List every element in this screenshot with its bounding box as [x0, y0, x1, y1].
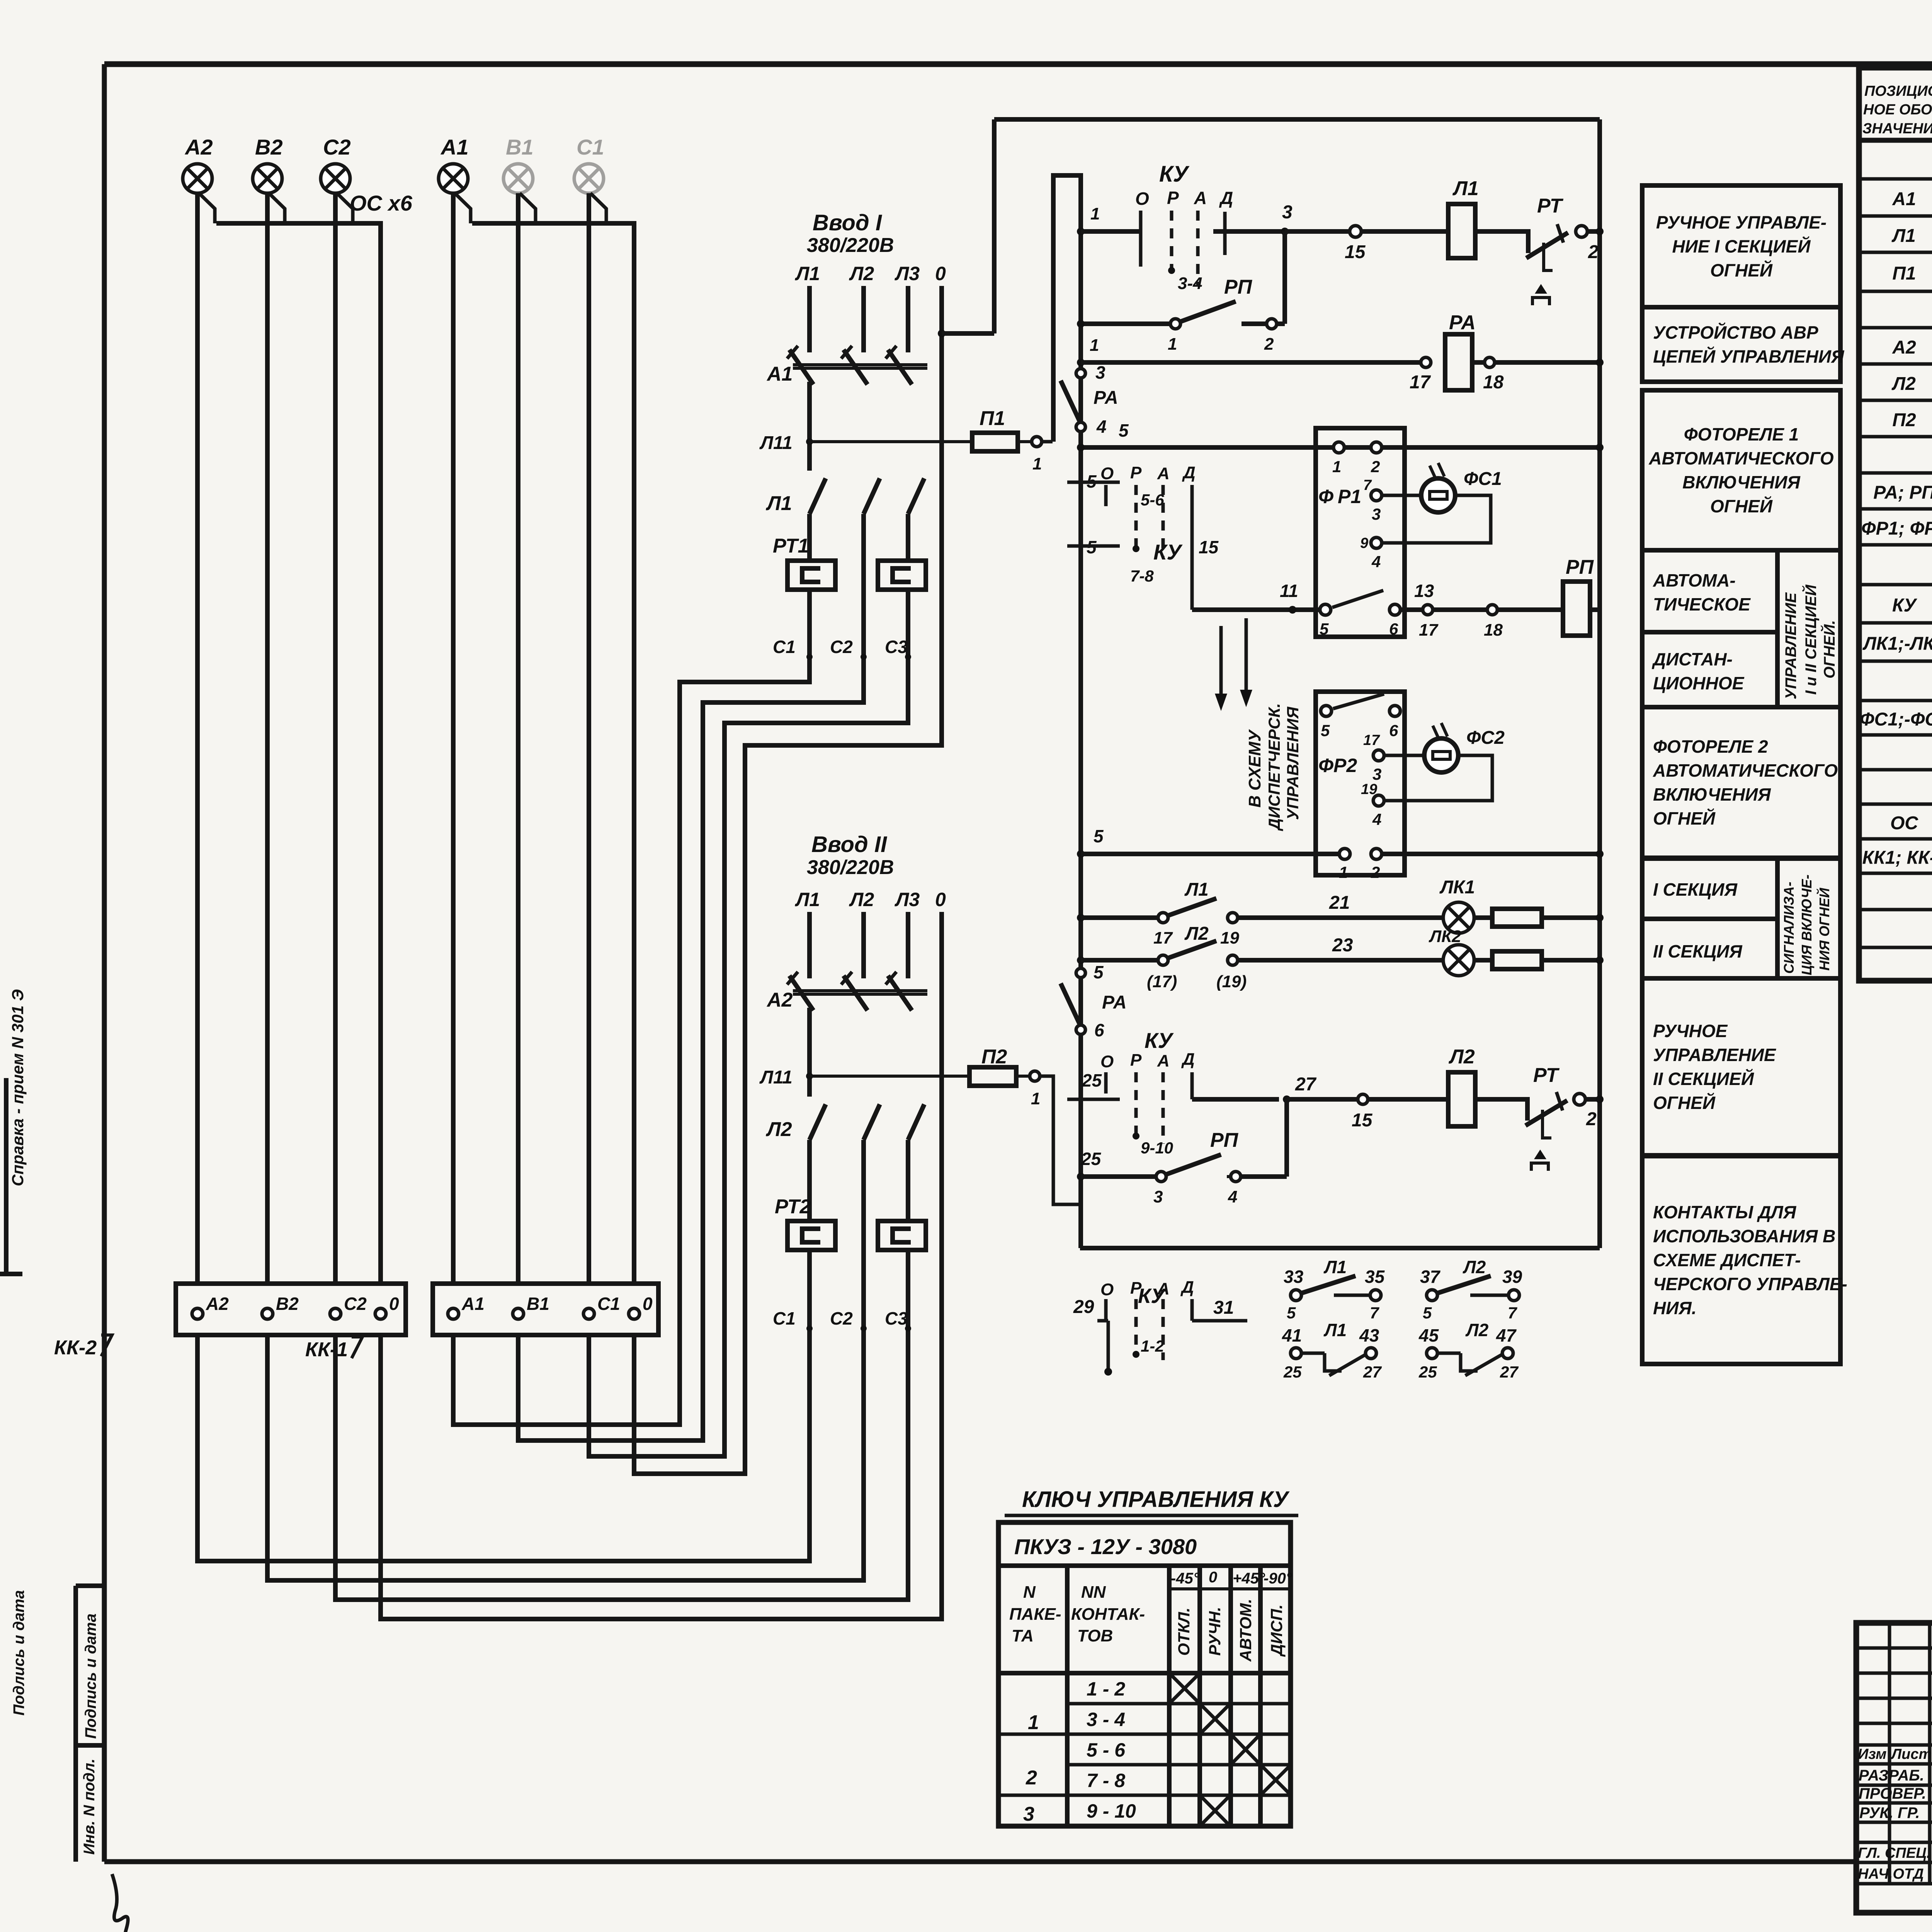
- svg-text:5: 5: [1119, 420, 1129, 440]
- svg-text:С3: С3: [885, 1308, 908, 1328]
- row РП coil (11-13-18): [1192, 556, 1600, 639]
- svg-text:ЦИЯ ВКЛЮЧЕ-: ЦИЯ ВКЛЮЧЕ-: [1799, 874, 1815, 975]
- svg-text:5: 5: [1423, 1304, 1432, 1322]
- function box РУЧНОЕ: [1642, 978, 1840, 1155]
- svg-text:1: 1: [1028, 1711, 1039, 1734]
- wire lamp С2 down to КК-2: [333, 193, 338, 1284]
- function box I секция / II секция: [1642, 859, 1840, 978]
- svg-text:ЦИОННОЕ: ЦИОННОЕ: [1653, 673, 1745, 693]
- svg-text:Л2: Л2: [1463, 1257, 1486, 1277]
- svg-text:1 - 2: 1 - 2: [1087, 1678, 1125, 1700]
- svg-text:Справка - прием N 301 Э: Справка - прием N 301 Э: [9, 989, 27, 1186]
- wire bundle КК-2 to Ввод II: [197, 1327, 942, 1619]
- wire lamp А1 down to КК-1: [451, 193, 456, 1284]
- svg-text:21: 21: [1329, 893, 1350, 913]
- svg-text:А2: А2: [766, 989, 793, 1011]
- table row РА; РП: [1873, 480, 1932, 503]
- svg-text:РП: РП: [1566, 556, 1594, 578]
- svg-text:27: 27: [1295, 1074, 1317, 1095]
- svg-text:4: 4: [1372, 810, 1381, 828]
- bottom-left corner scribble: [112, 1874, 132, 1932]
- svg-text:СХЕМЕ ДИСПЕТ-: СХЕМЕ ДИСПЕТ-: [1653, 1250, 1801, 1270]
- svg-text:Р: Р: [1130, 463, 1142, 482]
- svg-text:19: 19: [1220, 929, 1239, 947]
- table row КУ: [1892, 590, 1932, 619]
- svg-text:АВТОМАТИЧЕСКОГО: АВТОМАТИЧЕСКОГО: [1653, 760, 1838, 781]
- svg-text:НОЕ ОБО-: НОЕ ОБО-: [1863, 102, 1932, 118]
- svg-text:НАЧ.ОТД: НАЧ.ОТД: [1858, 1866, 1924, 1882]
- table row ФР1; ФР2: [1861, 516, 1932, 539]
- svg-text:ДИСП.: ДИСП.: [1267, 1604, 1286, 1657]
- svg-text:380/220В: 380/220В: [807, 856, 894, 879]
- svg-text:ФОТОРЕЛЕ 2: ФОТОРЕЛЕ 2: [1653, 736, 1768, 757]
- svg-text:5: 5: [1287, 1304, 1296, 1322]
- signal row Л2 23 ЛК2: [1077, 923, 1604, 991]
- svg-text:37: 37: [1420, 1267, 1441, 1287]
- svg-text:С2: С2: [344, 1294, 367, 1314]
- svg-text:В СХЕМУ: В СХЕМУ: [1245, 729, 1264, 808]
- control key КУ (middle 5-6 7-8): [1067, 463, 1219, 610]
- table row ОС: [1890, 808, 1932, 837]
- svg-text:5 - 6: 5 - 6: [1087, 1739, 1126, 1761]
- wire lamp group 1 neutral bus: [455, 193, 634, 1284]
- wire lamp В2 down to КК-2: [265, 193, 270, 1284]
- svg-text:1: 1: [1339, 863, 1348, 881]
- svg-text:Д: Д: [1180, 1278, 1194, 1297]
- svg-text:17: 17: [1419, 621, 1439, 639]
- lamp ОС С2: [321, 135, 351, 193]
- svg-text:ИСПОЛЬЗОВАНИЯ В: ИСПОЛЬЗОВАНИЯ В: [1653, 1226, 1835, 1246]
- svg-text:5: 5: [1321, 721, 1330, 740]
- svg-text:РА: РА: [1449, 311, 1476, 334]
- control key КУ (bottom 1-2, 29/31): [1073, 1278, 1247, 1376]
- function box ФОТОРЕЛЕ 2: [1642, 707, 1840, 858]
- svg-text:Л1: Л1: [1323, 1320, 1347, 1340]
- svg-text:Л11: Л11: [759, 433, 793, 453]
- svg-text:ТА: ТА: [1012, 1626, 1034, 1645]
- node 3: [1281, 202, 1350, 235]
- svg-text:7 - 8: 7 - 8: [1087, 1770, 1125, 1791]
- svg-text:N: N: [1023, 1583, 1036, 1602]
- svg-text:25: 25: [1081, 1149, 1102, 1169]
- svg-text:3: 3: [1153, 1187, 1163, 1206]
- svg-text:С2: С2: [830, 1308, 853, 1328]
- svg-text:Л1: Л1: [1184, 879, 1209, 900]
- interlock contact РП (section I): [1077, 231, 1285, 354]
- svg-text:ОГНЕЙ: ОГНЕЙ: [1710, 260, 1773, 281]
- svg-text:0: 0: [935, 889, 946, 910]
- net labels Л1 Л2 Л3 0 ввод I: [795, 263, 946, 284]
- table row П2: [1892, 408, 1932, 431]
- svg-text:Р: Р: [1130, 1051, 1142, 1070]
- svg-text:(19): (19): [1216, 972, 1247, 991]
- svg-text:ОС: ОС: [1890, 813, 1918, 833]
- svg-text:17: 17: [1363, 732, 1380, 748]
- svg-text:В2: В2: [276, 1294, 299, 1314]
- svg-text:15: 15: [1345, 242, 1366, 262]
- svg-text:Л2: Л2: [1465, 1320, 1489, 1340]
- control key КУ (upper): [1135, 162, 1285, 293]
- svg-text:Л1: Л1: [795, 889, 820, 910]
- svg-text:ПОЗИЦИОН: ПОЗИЦИОН: [1864, 83, 1932, 99]
- control circuit box outline: [994, 119, 1600, 1248]
- table row ЛК1;-ЛК2: [1862, 631, 1932, 655]
- svg-text:А: А: [1157, 1279, 1170, 1298]
- svg-text:ЛК1: ЛК1: [1439, 877, 1475, 898]
- svg-text:Р1: Р1: [1338, 486, 1361, 507]
- svg-text:-90°: -90°: [1264, 1570, 1293, 1587]
- svg-text:13: 13: [1414, 581, 1434, 601]
- arrows to dispatcher circuit: [1215, 618, 1302, 831]
- svg-text:4: 4: [1228, 1187, 1237, 1206]
- svg-text:УПРАВЛЕНИЕ: УПРАВЛЕНИЕ: [1653, 1045, 1776, 1065]
- svg-text:23: 23: [1332, 935, 1353, 956]
- svg-text:3: 3: [1095, 362, 1105, 383]
- photorelay ФР2 box: [1316, 692, 1405, 881]
- breaker А1: [766, 286, 927, 385]
- contact point 15 (row 1): [1345, 226, 1448, 262]
- svg-text:25: 25: [1418, 1363, 1437, 1381]
- svg-text:РАЗРАБ.: РАЗРАБ.: [1859, 1767, 1924, 1784]
- svg-text:Инв. N подл.: Инв. N подл.: [81, 1759, 98, 1855]
- svg-text:1: 1: [1032, 454, 1042, 473]
- svg-text:АВТОМ.: АВТОМ.: [1236, 1599, 1255, 1662]
- thermal contact РТ (row 1): [1526, 195, 1604, 305]
- svg-text:ОГНЕЙ: ОГНЕЙ: [1653, 1093, 1716, 1113]
- lamp ОС С1: [574, 135, 604, 193]
- svg-text:КУ: КУ: [1145, 1028, 1174, 1053]
- lamp ОС А2: [183, 135, 213, 193]
- svg-text:18: 18: [1483, 372, 1504, 393]
- svg-text:В1: В1: [506, 135, 534, 159]
- svg-text:РУК. ГР.: РУК. ГР.: [1859, 1804, 1920, 1821]
- svg-text:УПРАВЛЕНИЕ: УПРАВЛЕНИЕ: [1782, 592, 1799, 699]
- svg-text:5: 5: [1094, 962, 1104, 982]
- svg-text:РТ: РТ: [1533, 1064, 1560, 1087]
- svg-text:2: 2: [1588, 242, 1599, 262]
- parts list table: [1859, 68, 1932, 981]
- svg-text:ПАКЕ-: ПАКЕ-: [1009, 1605, 1061, 1624]
- svg-text:4: 4: [1096, 417, 1107, 437]
- svg-text:КОНТАК-: КОНТАК-: [1071, 1605, 1145, 1624]
- svg-text:3: 3: [1372, 765, 1381, 783]
- supply bus with bridge: [1053, 175, 1081, 1248]
- svg-text:ОГНЕЙ.: ОГНЕЙ.: [1820, 620, 1838, 679]
- svg-text:Л2: Л2: [1891, 374, 1916, 394]
- row 5 to box edge through ФР2 pins: [1077, 826, 1604, 858]
- lamp ОС В2: [253, 135, 283, 193]
- svg-text:17: 17: [1153, 929, 1173, 947]
- svg-text:ФР1; ФР2: ФР1; ФР2: [1861, 519, 1932, 539]
- svg-text:31: 31: [1213, 1298, 1234, 1318]
- svg-text:Л1: Л1: [795, 263, 820, 284]
- changeover РА on bus (3/4): [1061, 362, 1118, 437]
- svg-text:Л3: Л3: [895, 263, 920, 284]
- svg-text:С1: С1: [773, 1308, 796, 1328]
- svg-text:АВТОМАТИЧЕСКОГО: АВТОМАТИЧЕСКОГО: [1648, 448, 1833, 468]
- wire lamp В1 down to КК-1: [516, 193, 520, 1284]
- interlock contact РП (section II, 3-4): [1077, 1099, 1287, 1206]
- svg-text:КК-2: КК-2: [54, 1337, 97, 1359]
- svg-text:ФС2: ФС2: [1466, 728, 1505, 748]
- thermal element РТ1: [773, 514, 926, 723]
- svg-text:ОС х6: ОС х6: [350, 191, 413, 215]
- svg-text:ФС1;-ФС2: ФС1;-ФС2: [1860, 709, 1932, 730]
- left margin stamp: подпись и дата / инв: [0, 989, 104, 1862]
- svg-text:7: 7: [1370, 1304, 1379, 1322]
- title block outline: [1856, 1623, 1932, 1913]
- svg-text:Д: Д: [1219, 188, 1233, 208]
- svg-text:П1: П1: [980, 407, 1005, 430]
- svg-text:6: 6: [1389, 620, 1398, 638]
- svg-text:ГЛ. СПЕЦ.: ГЛ. СПЕЦ.: [1858, 1845, 1930, 1861]
- label Ввод I 380/220В: [807, 210, 894, 257]
- svg-text:1: 1: [1090, 204, 1100, 223]
- function box ФОТОРЕЛЕ 1: [1642, 390, 1840, 550]
- svg-text:О: О: [1100, 464, 1114, 483]
- svg-text:СИГНАЛИЗА-: СИГНАЛИЗА-: [1781, 882, 1797, 974]
- svg-text:43: 43: [1359, 1325, 1379, 1345]
- svg-text:А1: А1: [440, 135, 469, 159]
- breaker А2: [766, 912, 927, 1011]
- svg-text:47: 47: [1496, 1325, 1517, 1345]
- svg-text:С1: С1: [577, 135, 604, 159]
- svg-text:С2: С2: [323, 135, 351, 159]
- photorelay ФР1 box: [1316, 428, 1405, 638]
- svg-text:3: 3: [1282, 202, 1293, 223]
- svg-text:1: 1: [1332, 457, 1341, 476]
- svg-text:ДИСТАН-: ДИСТАН-: [1651, 649, 1733, 669]
- wire lamp group 2 neutral bus: [199, 193, 381, 1284]
- svg-text:КУ: КУ: [1892, 595, 1918, 616]
- svg-text:КОНТАКТЫ ДЛЯ: КОНТАКТЫ ДЛЯ: [1653, 1202, 1797, 1222]
- svg-text:29: 29: [1073, 1297, 1094, 1317]
- label Ввод II 380/220В: [807, 832, 894, 879]
- svg-text:РУЧНОЕ: РУЧНОЕ: [1653, 1021, 1728, 1041]
- svg-text:7-8: 7-8: [1130, 567, 1154, 585]
- svg-text:6: 6: [1094, 1020, 1104, 1040]
- svg-text:5: 5: [1320, 620, 1329, 638]
- svg-text:Л2: Л2: [849, 263, 874, 284]
- svg-text:35: 35: [1365, 1267, 1385, 1287]
- svg-text:Л1: Л1: [1323, 1257, 1347, 1277]
- lamp ОС А1: [439, 135, 469, 193]
- svg-text:С3: С3: [885, 637, 908, 657]
- svg-text:ОТКЛ.: ОТКЛ.: [1175, 1607, 1193, 1656]
- svg-text:РУЧНОЕ УПРАВЛЕ-: РУЧНОЕ УПРАВЛЕ-: [1656, 213, 1827, 233]
- svg-text:РТ2: РТ2: [775, 1196, 811, 1218]
- svg-text:ПРОВЕР.: ПРОВЕР.: [1859, 1785, 1926, 1802]
- svg-text:Подпись и дата: Подпись и дата: [82, 1614, 99, 1739]
- svg-text:15: 15: [1352, 1110, 1373, 1131]
- changeover РА on bus (5/6): [1061, 962, 1127, 1040]
- svg-text:А1: А1: [461, 1294, 485, 1314]
- svg-text:3 - 4: 3 - 4: [1087, 1709, 1125, 1730]
- table row КК1; КК-2: [1862, 845, 1932, 869]
- svg-text:С1: С1: [773, 637, 796, 657]
- svg-text:Л1: Л1: [1452, 177, 1479, 200]
- svg-text:Р: Р: [1167, 188, 1179, 208]
- svg-text:2: 2: [1586, 1109, 1597, 1129]
- function box РУЧНОЕ УПРАВЛЕ-: [1642, 185, 1840, 307]
- svg-text:ЗНАЧЕНИЕ: ЗНАЧЕНИЕ: [1862, 121, 1932, 137]
- svg-text:2: 2: [1371, 863, 1380, 881]
- table row Л2: [1891, 368, 1932, 397]
- table row П1: [1892, 261, 1932, 284]
- svg-text:А: А: [1157, 464, 1170, 483]
- contactor contacts Л2 (ввод II): [765, 1104, 924, 1221]
- svg-text:I и II СЕКЦИЕЙ: I и II СЕКЦИЕЙ: [1801, 584, 1820, 695]
- svg-text:НИЯ.: НИЯ.: [1653, 1298, 1697, 1318]
- aux contacts Л1 Л2 (33-35 37-39): [1284, 1257, 1522, 1322]
- wire lamp А2 down to КК-2: [195, 193, 200, 1284]
- svg-text:РА; РП: РА; РП: [1873, 483, 1932, 503]
- svg-text:Д: Д: [1182, 463, 1196, 482]
- table row А1: [1892, 186, 1932, 210]
- svg-text:О: О: [1135, 189, 1149, 209]
- svg-text:27: 27: [1500, 1363, 1519, 1381]
- svg-text:15: 15: [1199, 537, 1219, 557]
- control key КУ (lower 9-10): [1067, 1028, 1195, 1157]
- svg-text:О: О: [1100, 1280, 1114, 1299]
- svg-text:2: 2: [1026, 1767, 1037, 1789]
- svg-text:25: 25: [1283, 1363, 1302, 1381]
- svg-text:5: 5: [1094, 826, 1104, 846]
- svg-text:0: 0: [389, 1294, 399, 1314]
- node labels С1 С2 С3 (ввод II): [773, 1308, 911, 1332]
- svg-text:ЦЕПЕЙ УПРАВЛЕНИЯ: ЦЕПЕЙ УПРАВЛЕНИЯ: [1653, 347, 1845, 367]
- svg-text:КЛЮЧ УПРАВЛЕНИЯ КУ: КЛЮЧ УПРАВЛЕНИЯ КУ: [1022, 1487, 1290, 1512]
- svg-text:Р: Р: [1130, 1279, 1142, 1298]
- svg-text:В2: В2: [255, 135, 283, 159]
- svg-text:0: 0: [1209, 1569, 1217, 1586]
- svg-text:РП: РП: [1210, 1129, 1239, 1151]
- row Л2 coil (27 15 Л2 РТ 2): [1192, 1046, 1604, 1171]
- svg-text:ЛК1;-ЛК2: ЛК1;-ЛК2: [1862, 634, 1932, 654]
- svg-text:II СЕКЦИЯ: II СЕКЦИЯ: [1653, 941, 1743, 961]
- terminal box КК-2: [54, 1284, 406, 1359]
- svg-text:КУ: КУ: [1159, 162, 1190, 187]
- svg-text:ОГНЕЙ: ОГНЕЙ: [1653, 808, 1716, 828]
- neutral 0 column ввод II: [939, 912, 944, 1619]
- function box УСТРОЙСТВО АВР: [1642, 307, 1845, 382]
- svg-text:Л11: Л11: [759, 1067, 793, 1088]
- wire bundle КК-1 to Ввод I: [453, 657, 942, 1474]
- svg-text:11: 11: [1280, 581, 1298, 601]
- svg-text:Д: Д: [1181, 1050, 1195, 1069]
- svg-text:2: 2: [1264, 335, 1274, 354]
- svg-text:9: 9: [1360, 535, 1368, 551]
- svg-text:А2: А2: [1892, 337, 1916, 358]
- svg-text:РА: РА: [1102, 992, 1127, 1013]
- svg-text:7: 7: [1508, 1304, 1517, 1322]
- function box Автоматическое/Дистанционное: [1642, 550, 1840, 707]
- svg-text:А1: А1: [766, 363, 793, 385]
- svg-text:9 - 10: 9 - 10: [1087, 1800, 1136, 1822]
- svg-text:Ввод II: Ввод II: [811, 832, 888, 857]
- svg-text:Л2: Л2: [849, 889, 874, 910]
- node Л11 + fuse П2: [759, 1008, 1081, 1204]
- svg-text:А2: А2: [206, 1294, 229, 1314]
- svg-text:НИЯ ОГНЕЙ: НИЯ ОГНЕЙ: [1816, 888, 1832, 971]
- svg-text:Л2: Л2: [1448, 1046, 1475, 1068]
- svg-text:А1: А1: [1892, 189, 1916, 209]
- svg-text:3: 3: [1023, 1803, 1034, 1825]
- svg-text:С1: С1: [597, 1294, 620, 1314]
- svg-text:П2: П2: [1892, 410, 1916, 430]
- svg-text:Л2: Л2: [765, 1118, 792, 1141]
- thermal element РТ2: [775, 1140, 926, 1600]
- svg-text:ЧЕРСКОГО УПРАВЛЕ-: ЧЕРСКОГО УПРАВЛЕ-: [1653, 1274, 1847, 1294]
- svg-text:ФР2: ФР2: [1318, 755, 1357, 776]
- svg-text:Л1: Л1: [765, 492, 792, 515]
- svg-text:0: 0: [643, 1294, 653, 1314]
- svg-text:РП: РП: [1224, 276, 1253, 298]
- svg-text:КК1; КК-2: КК1; КК-2: [1862, 848, 1932, 868]
- svg-text:33: 33: [1284, 1267, 1304, 1287]
- svg-text:УСТРОЙСТВО АВР: УСТРОЙСТВО АВР: [1653, 323, 1818, 343]
- photoresistor ФС2: [1384, 723, 1505, 801]
- svg-text:41: 41: [1282, 1325, 1302, 1345]
- key table title Ключ управления КУ: [1005, 1487, 1298, 1515]
- svg-text:РУЧН.: РУЧН.: [1206, 1607, 1224, 1656]
- svg-text:+45°: +45°: [1233, 1570, 1265, 1587]
- svg-text:А: А: [1194, 188, 1207, 208]
- svg-text:25: 25: [1082, 1070, 1102, 1090]
- revision / signature grid: [1856, 1623, 1932, 1884]
- svg-text:3: 3: [1372, 505, 1381, 523]
- parts table header: [1862, 83, 1932, 137]
- svg-text:NN: NN: [1081, 1583, 1106, 1602]
- svg-text:ТОВ: ТОВ: [1077, 1626, 1113, 1645]
- svg-text:О: О: [1100, 1052, 1114, 1071]
- svg-text:А2: А2: [184, 135, 213, 159]
- svg-text:Л1: Л1: [1891, 226, 1916, 246]
- svg-text:ОГНЕЙ: ОГНЕЙ: [1710, 496, 1773, 516]
- node labels С1 С2 С3 (ввод I): [773, 637, 911, 660]
- svg-text:А: А: [1157, 1051, 1170, 1070]
- svg-text:4: 4: [1371, 553, 1381, 571]
- svg-text:РТ1: РТ1: [773, 535, 809, 557]
- net labels Л1 Л2 Л3 0 ввод II: [795, 889, 946, 910]
- svg-text:II СЕКЦИЕЙ: II СЕКЦИЕЙ: [1653, 1069, 1754, 1089]
- aux break contacts Л1 Л2 (41-43 45-47): [1282, 1320, 1519, 1381]
- svg-text:2: 2: [1371, 457, 1380, 476]
- svg-text:Ф: Ф: [1318, 486, 1333, 507]
- svg-text:УПРАВЛЕНИЯ: УПРАВЛЕНИЯ: [1284, 706, 1302, 820]
- svg-text:КК-1: КК-1: [305, 1338, 348, 1361]
- svg-text:5-6: 5-6: [1141, 491, 1164, 509]
- node Л11 + fuse П1: [759, 382, 1053, 473]
- svg-text:39: 39: [1502, 1267, 1522, 1287]
- coil Л1: [1448, 177, 1527, 258]
- svg-text:С2: С2: [830, 637, 853, 657]
- function box КОНТАКТЫ ДЛЯ: [1642, 1156, 1847, 1364]
- svg-text:-45°: -45°: [1171, 1570, 1200, 1587]
- svg-text:ТИЧЕСКОЕ: ТИЧЕСКОЕ: [1653, 594, 1751, 614]
- svg-text:РТ: РТ: [1537, 195, 1564, 217]
- svg-text:380/220В: 380/220В: [807, 234, 894, 257]
- svg-text:НИЕ I СЕКЦИЕЙ: НИЕ I СЕКЦИЕЙ: [1672, 236, 1811, 257]
- svg-text:КУ: КУ: [1153, 540, 1183, 564]
- signal row Л1 21 ЛК1: [1077, 877, 1604, 947]
- svg-text:I СЕКЦИЯ: I СЕКЦИЯ: [1653, 879, 1738, 900]
- svg-text:1: 1: [1168, 335, 1177, 354]
- svg-text:Л2: Л2: [1184, 923, 1209, 944]
- svg-text:АВТОМА-: АВТОМА-: [1653, 570, 1736, 590]
- svg-text:ФОТОРЕЛЕ 1: ФОТОРЕЛЕ 1: [1684, 424, 1799, 444]
- svg-text:В1: В1: [527, 1294, 549, 1314]
